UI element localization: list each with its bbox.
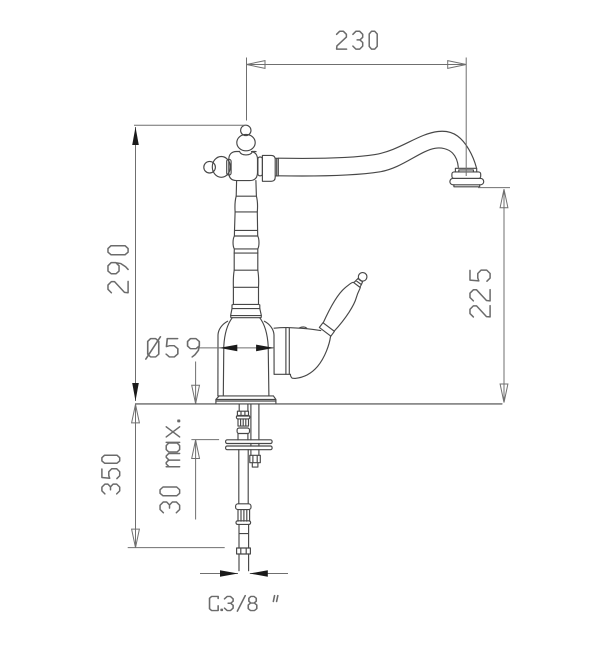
lever tip ball <box>357 271 369 283</box>
dim 230 open arrow right <box>448 61 467 69</box>
spout nut flange <box>258 157 263 176</box>
hose below washers <box>239 450 248 504</box>
column torus ring <box>233 236 259 253</box>
small hex fitting <box>237 548 251 554</box>
dim 30max open arrow up <box>192 440 200 459</box>
column neck segment 1 <box>236 181 256 197</box>
dim 225 line <box>503 189 505 402</box>
dim G38 line right <box>250 573 288 575</box>
spout tube top edge <box>278 131 476 167</box>
shank lower collar <box>237 428 249 434</box>
label 230 <box>337 31 378 49</box>
valve housing left lines <box>286 328 289 374</box>
DIMENSIONS <box>128 58 510 577</box>
valve housing top edge <box>274 328 321 331</box>
body base step <box>216 396 276 403</box>
shank threaded section <box>238 419 249 426</box>
hex nut <box>250 455 260 467</box>
spout tube bottom edge <box>278 148 458 176</box>
dim G38 line left <box>200 573 238 575</box>
hose fitting lower collar <box>236 521 251 525</box>
dim 225 extension line top <box>478 187 510 189</box>
pipe end <box>239 554 249 571</box>
dim 225 open arrow top <box>500 189 508 208</box>
spout outlet collar <box>455 168 476 172</box>
body right side <box>260 318 274 396</box>
dim 30max lower line <box>195 440 197 520</box>
dim 230 open arrow left <box>247 61 266 69</box>
lever collar <box>319 323 334 336</box>
valve housing seam arc <box>299 327 307 328</box>
column segment 7 <box>233 287 258 304</box>
washer plate 1 <box>226 440 273 444</box>
dim 290 filled arrow bottom <box>132 383 139 401</box>
dim 350 open arrow bottom <box>132 529 140 548</box>
dim diam59 line <box>200 347 275 349</box>
washer plate 2 <box>226 446 273 450</box>
dim 30max tick line <box>191 439 219 441</box>
lever grip <box>320 280 366 332</box>
shank collar <box>236 416 249 419</box>
lever assembly <box>316 268 374 336</box>
left knob ball <box>212 157 230 178</box>
dim G38 filled arrow right <box>250 570 268 577</box>
label diam 59 <box>146 337 200 359</box>
dim 30max upper line <box>195 362 197 404</box>
finial lower ball <box>237 134 255 150</box>
lever neck rings <box>354 278 364 288</box>
column segment 5 <box>234 253 258 270</box>
hose fitting threads <box>238 510 250 522</box>
finial top ball <box>241 125 251 135</box>
dim 230 line <box>247 64 467 66</box>
head block <box>229 151 258 180</box>
mounting stud <box>251 405 259 456</box>
dim 350 open arrow top <box>132 404 140 423</box>
dim diam59 filled arrow left <box>219 345 237 352</box>
spout outlet cap <box>454 185 480 187</box>
column base flare <box>231 309 262 318</box>
dim 30max open arrow down <box>192 385 200 404</box>
label 30 max rotated <box>160 420 180 513</box>
dim 225 open arrow bottom <box>500 384 508 403</box>
label G 3/8 <box>210 596 278 612</box>
valve housing bottom and outer curve <box>274 336 331 378</box>
spout outlet ring 1 <box>452 172 481 179</box>
shank pipe below counter <box>239 405 248 412</box>
dim diam59 filled arrow right <box>256 345 274 352</box>
dim G38 filled arrow left <box>220 570 238 577</box>
dim 230 extension line right <box>465 58 467 177</box>
dim 230 extension line left <box>246 58 248 121</box>
label 290 rotated <box>108 246 128 293</box>
pipe to washers <box>238 434 248 440</box>
pipe segment <box>239 524 249 548</box>
column segment 6 concave <box>233 270 258 287</box>
column base band <box>232 304 260 308</box>
dim 350 extension line bottom <box>128 547 225 549</box>
dim 350 line <box>135 404 137 547</box>
shank fitting block <box>237 411 248 416</box>
left knob flange <box>227 159 231 175</box>
column segment 2 concave <box>235 196 258 212</box>
dim 290 line <box>135 127 137 401</box>
column segment 3 <box>234 212 257 236</box>
spout nut <box>262 155 278 181</box>
body left side <box>218 318 232 396</box>
spout outlet ring 2 <box>450 178 484 184</box>
label 225 rotated <box>470 270 490 317</box>
countertop line <box>136 403 503 405</box>
dim 290 extension line top <box>134 124 247 126</box>
left knob tip ball <box>204 161 216 173</box>
label 350 rotated <box>102 455 120 494</box>
hose fitting collar <box>236 504 251 510</box>
dim 290 filled arrow top <box>132 127 139 145</box>
